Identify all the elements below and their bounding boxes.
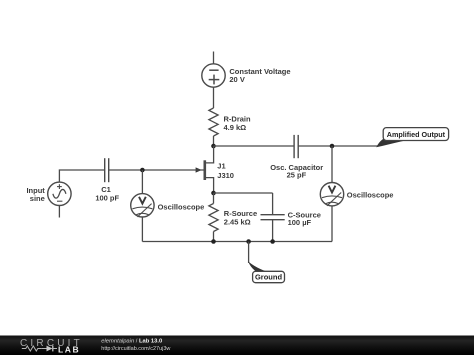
logo resistor zigzag xyxy=(22,346,42,351)
wire source node to C-Source branch xyxy=(214,192,273,194)
node ground junction xyxy=(246,239,251,244)
label C1 100 pF xyxy=(95,185,119,202)
wire right oscilloscope to bottom rail xyxy=(331,206,333,242)
wire top stub to V1 xyxy=(213,52,215,64)
wire stub below Input sine xyxy=(58,206,60,218)
svg-text:LAB: LAB xyxy=(58,345,80,355)
label J1 J310 xyxy=(217,161,234,180)
wire Input sine to C1 xyxy=(59,170,104,182)
wire C1 to gate of J1 xyxy=(109,169,204,171)
voltmeter Oscilloscope right xyxy=(320,183,343,206)
node R-Source bottom junction xyxy=(211,239,216,244)
label C-Source 100 uF xyxy=(288,210,321,227)
footer bar xyxy=(0,336,474,355)
wire drain node to Osc. Capacitor xyxy=(214,145,295,147)
svg-text:http://circuitlab.com/c27uj3w: http://circuitlab.com/c27uj3w xyxy=(101,346,170,352)
source V2 Input sine xyxy=(48,182,71,205)
node C-Source bottom junction xyxy=(270,239,275,244)
wire source node to R-Source xyxy=(213,193,215,204)
node output junction xyxy=(330,144,335,149)
svg-text:100 µF: 100 µF xyxy=(288,218,312,227)
wire ground stub xyxy=(248,242,250,264)
svg-text:20 V: 20 V xyxy=(229,75,244,84)
resistor R-Source xyxy=(209,204,218,232)
svg-text:Oscilloscope: Oscilloscope xyxy=(158,203,205,212)
svg-text:Amplified Output: Amplified Output xyxy=(387,130,446,139)
label Osc. Capacitor 25 pF xyxy=(270,163,323,180)
node source junction xyxy=(211,191,216,196)
wire left oscilloscope to bottom rail xyxy=(141,217,143,242)
svg-text:Ground: Ground xyxy=(255,273,282,282)
capacitor C1 xyxy=(105,158,109,182)
wire R-Source to bottom rail xyxy=(213,232,215,242)
wire V1 to R-Drain xyxy=(213,87,215,108)
capacitor C-Source xyxy=(261,215,285,220)
flag Ground xyxy=(248,262,284,283)
svg-text:sine: sine xyxy=(30,194,45,203)
label R-Source 2.45 kOhm xyxy=(224,209,257,227)
svg-text:Oscilloscope: Oscilloscope xyxy=(347,191,394,200)
voltmeter Oscilloscope left xyxy=(131,194,154,217)
svg-text:25 pF: 25 pF xyxy=(287,170,307,179)
wire C-Source branch down to plates xyxy=(272,193,274,215)
svg-text:J310: J310 xyxy=(217,171,234,180)
resistor R-Drain xyxy=(209,108,218,136)
label Constant Voltage 20 V xyxy=(229,67,290,84)
svg-text:2.45 kΩ: 2.45 kΩ xyxy=(224,218,251,227)
wire right branch from output node down xyxy=(331,146,333,183)
node drain junction xyxy=(211,144,216,149)
logo diode xyxy=(42,346,57,352)
svg-text:4.9 kΩ: 4.9 kΩ xyxy=(224,123,247,132)
svg-text:100 pF: 100 pF xyxy=(95,194,119,203)
label R-Drain 4.9 kOhm xyxy=(224,114,252,131)
svg-text:J1: J1 xyxy=(217,161,225,170)
wire R-Drain to drain node xyxy=(213,136,215,146)
node gate junction xyxy=(140,168,145,173)
label Input sine xyxy=(26,186,45,203)
svg-text:elemntalpain / Lab 13.0: elemntalpain / Lab 13.0 xyxy=(101,338,162,344)
voltage source V1 Constant Voltage xyxy=(202,64,225,87)
wire C-Source to bottom rail xyxy=(272,220,274,242)
wire gate node down to left oscilloscope xyxy=(141,170,143,194)
wire Osc. Capacitor to output flag xyxy=(298,145,377,147)
flag Amplified Output xyxy=(376,128,448,148)
transistor Q J1 (JFET) xyxy=(196,146,214,193)
wire bottom rail xyxy=(142,241,332,243)
capacitor Osc. Capacitor xyxy=(294,135,298,158)
